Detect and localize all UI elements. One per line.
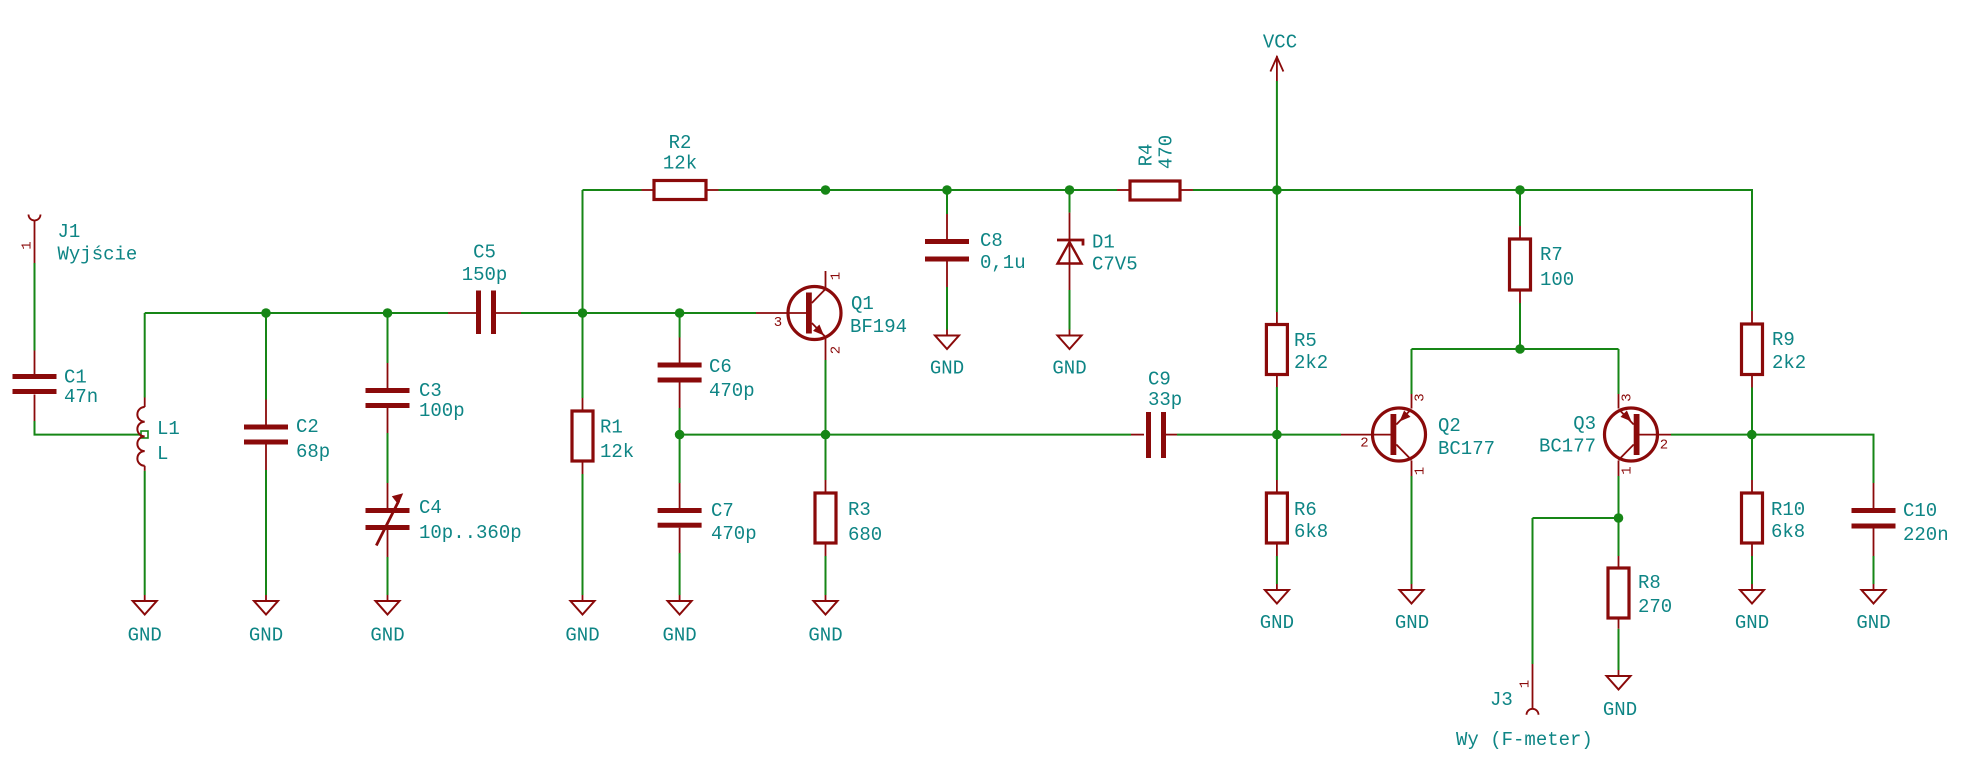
svg-text:Wyjście: Wyjście (58, 244, 138, 266)
svg-text:1: 1 (1517, 680, 1533, 688)
svg-text:C7: C7 (711, 500, 734, 522)
svg-text:GND: GND (128, 625, 162, 647)
svg-text:C2: C2 (296, 416, 319, 438)
svg-text:VCC: VCC (1263, 32, 1297, 54)
svg-text:2: 2 (1360, 436, 1368, 452)
svg-text:2k2: 2k2 (1294, 352, 1328, 374)
svg-text:470: 470 (1156, 135, 1178, 169)
svg-text:GND: GND (1856, 612, 1890, 634)
svg-text:3: 3 (774, 315, 782, 331)
svg-text:C5: C5 (473, 242, 496, 264)
svg-text:R6: R6 (1294, 499, 1317, 521)
svg-text:6k8: 6k8 (1294, 521, 1328, 543)
svg-text:2: 2 (829, 346, 845, 354)
svg-text:C10: C10 (1903, 500, 1937, 522)
svg-text:GND: GND (1735, 612, 1769, 634)
svg-text:33p: 33p (1148, 389, 1182, 411)
svg-text:100: 100 (1540, 269, 1574, 291)
svg-text:BC177: BC177 (1438, 438, 1495, 460)
svg-text:150p: 150p (462, 264, 508, 286)
svg-text:220n: 220n (1903, 524, 1949, 546)
svg-text:3: 3 (1413, 393, 1429, 401)
svg-text:GND: GND (1603, 699, 1637, 721)
svg-text:BC177: BC177 (1539, 436, 1596, 458)
svg-text:1: 1 (1413, 467, 1429, 475)
svg-text:L1: L1 (157, 418, 180, 440)
svg-text:12k: 12k (663, 153, 697, 175)
svg-text:R8: R8 (1638, 572, 1661, 594)
svg-text:D1: D1 (1092, 232, 1115, 254)
svg-text:C3: C3 (419, 380, 442, 402)
svg-text:GND: GND (370, 625, 404, 647)
svg-text:10p..360p: 10p..360p (419, 522, 522, 544)
svg-text:Q1: Q1 (851, 293, 874, 315)
svg-text:GND: GND (565, 625, 599, 647)
svg-text:GND: GND (1052, 358, 1086, 380)
svg-text:R1: R1 (600, 417, 623, 439)
svg-text:C9: C9 (1148, 369, 1171, 391)
svg-text:1: 1 (1620, 466, 1636, 474)
svg-text:680: 680 (848, 524, 882, 546)
svg-text:C6: C6 (709, 356, 732, 378)
svg-text:68p: 68p (296, 441, 330, 463)
svg-text:R10: R10 (1771, 499, 1805, 521)
svg-text:470p: 470p (711, 523, 757, 545)
svg-text:GND: GND (249, 625, 283, 647)
svg-text:GND: GND (662, 625, 696, 647)
svg-text:2k2: 2k2 (1772, 352, 1806, 374)
svg-text:R5: R5 (1294, 330, 1317, 352)
svg-text:6k8: 6k8 (1771, 521, 1805, 543)
svg-text:12k: 12k (600, 441, 634, 463)
svg-text:GND: GND (1395, 612, 1429, 634)
svg-text:2: 2 (1660, 438, 1668, 454)
svg-text:Q3: Q3 (1573, 413, 1596, 435)
svg-text:GND: GND (1260, 612, 1294, 634)
svg-text:0,1u: 0,1u (980, 252, 1026, 274)
svg-text:R3: R3 (848, 499, 871, 521)
svg-text:C8: C8 (980, 230, 1003, 252)
svg-text:GND: GND (930, 358, 964, 380)
svg-text:1: 1 (829, 272, 845, 280)
svg-text:C7V5: C7V5 (1092, 254, 1138, 276)
svg-text:270: 270 (1638, 596, 1672, 618)
svg-text:Q2: Q2 (1438, 415, 1461, 437)
svg-text:C4: C4 (419, 497, 442, 519)
svg-text:R4: R4 (1136, 144, 1158, 167)
svg-text:J3: J3 (1490, 689, 1513, 711)
svg-text:L: L (157, 443, 168, 465)
svg-text:GND: GND (808, 625, 842, 647)
svg-text:J1: J1 (58, 221, 81, 243)
svg-text:100p: 100p (419, 400, 465, 422)
svg-text:R9: R9 (1772, 329, 1795, 351)
svg-text:R2: R2 (669, 132, 692, 154)
svg-text:BF194: BF194 (850, 316, 907, 338)
svg-text:1: 1 (19, 241, 35, 249)
svg-text:470p: 470p (709, 380, 755, 402)
svg-text:47n: 47n (64, 386, 98, 408)
svg-text:Wy (F-meter): Wy (F-meter) (1456, 729, 1593, 751)
svg-text:3: 3 (1620, 393, 1636, 401)
svg-text:R7: R7 (1540, 244, 1563, 266)
